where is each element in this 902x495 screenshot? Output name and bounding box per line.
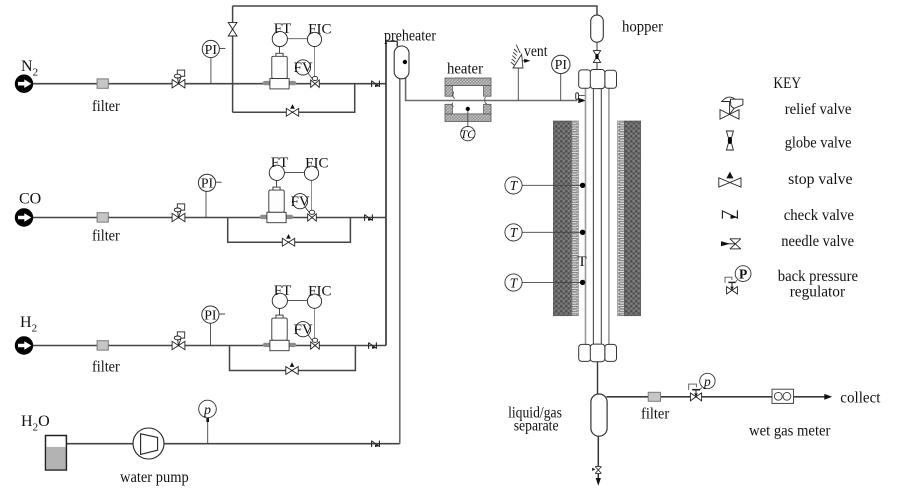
wire separator drain (597, 436, 599, 466)
key stop valve symbol (719, 172, 741, 188)
CO gas source (15, 209, 32, 226)
CO mass flow controller assembly FT/FIC/FV (262, 155, 329, 223)
svg-text:filter: filter (92, 359, 121, 376)
hopper vessel (591, 15, 604, 42)
temperature indicator T2 (505, 224, 522, 241)
wire reactor PI stem (560, 73, 562, 100)
H2 gas source (15, 337, 32, 354)
wire water line y=443.7 (66, 443, 399, 445)
reactor pressure indicator PI (552, 55, 570, 73)
wire H2 main line y=345.5 (33, 345, 386, 347)
wire H2 PI stem (210, 323, 212, 345)
furnace right coil strip (618, 121, 625, 316)
H2 bypass stop valve (286, 362, 298, 374)
wire nozzle link (579, 94, 586, 96)
heater bottom wall (445, 114, 491, 122)
water tank (46, 436, 67, 471)
key globe valve symbol (726, 131, 733, 150)
wire CO PI stem (205, 191, 207, 217)
svg-text:preheater: preheater (384, 28, 437, 45)
wire CO bypass loop (228, 218, 351, 243)
heater left wall segments (445, 86, 452, 97)
drain needle valve (595, 467, 601, 474)
wire top rail to hopper (233, 6, 597, 15)
N2 pressure regulator valve (172, 70, 185, 88)
svg-text:wet gas meter: wet gas meter (749, 423, 831, 440)
svg-text:back pressure: back pressure (778, 268, 858, 285)
thermocouple junction dot T3 (580, 280, 585, 285)
key globe valve plug dot (728, 137, 732, 144)
svg-text:hopper: hopper (622, 19, 664, 36)
wire vent stem (517, 68, 519, 101)
N2 check valve (372, 81, 380, 87)
reactor inner tube right wall (600, 89, 602, 345)
svg-text:filter: filter (641, 406, 670, 423)
CO pressure indicator PI (198, 174, 221, 191)
water line check valve (372, 441, 380, 447)
wire preheater water feed tube (down to water line) (399, 77, 401, 444)
drain outlet arrowhead (596, 478, 601, 486)
svg-text:H2: H2 (20, 314, 37, 335)
temperature indicator T1 (505, 177, 522, 194)
H2 mass flow controller assembly FT/FIC/FV (265, 283, 332, 351)
furnace left coil strip (572, 121, 579, 316)
water p gauge stem tick (206, 415, 209, 422)
svg-text:collect: collect (840, 390, 881, 407)
reactor inner tube left wall (592, 89, 594, 345)
svg-text:P: P (739, 267, 747, 282)
temperature controller TC (461, 126, 475, 140)
water pump (133, 428, 164, 459)
CO bypass stop valve (282, 234, 294, 246)
wire N2 main line y=83.7 (33, 83, 386, 85)
hopper globe valve plug dot (595, 54, 598, 59)
wire T3 branch (522, 281, 583, 283)
reactor inlet nozzle pill (576, 93, 579, 100)
svg-text:needle valve: needle valve (781, 233, 854, 250)
H2 pressure indicator PI (202, 306, 225, 323)
svg-text:CO: CO (19, 191, 41, 208)
thermocouple junction dot T1 (580, 183, 585, 188)
H2 pressure regulator valve (172, 332, 185, 350)
reactor top flange nuts (579, 70, 617, 89)
wire reactor bottom to separator (597, 362, 599, 395)
key check valve symbol (722, 210, 737, 219)
CO check valve (365, 214, 373, 220)
wire gas manifold vertical (385, 41, 387, 345)
svg-text:H2O: H2O (21, 413, 50, 434)
wire heater TC stem (467, 111, 469, 127)
svg-text:relief valve: relief valve (785, 101, 852, 118)
bpr bowtie (690, 393, 696, 401)
heater pipe entry hooks (453, 92, 455, 99)
N2 filter (97, 79, 108, 88)
reactor tube outer left wall (585, 89, 587, 345)
back pressure regulator (collect line) (689, 373, 715, 401)
reactor tube outer right wall (608, 89, 610, 345)
heater thermocouple dot (466, 107, 470, 111)
reactor bottom flange nuts (579, 344, 617, 362)
N2 mass flow controller assembly FT/FIC/FV (265, 21, 332, 89)
wire N2 PI stem (210, 58, 212, 84)
svg-text:p: p (203, 403, 211, 418)
H2 filter (97, 341, 108, 350)
wire CO main line y=217.5 (33, 217, 386, 219)
wire globe valve to reactor flange (596, 62, 598, 70)
furnace right jacket block (624, 121, 640, 316)
reactor inlet arrow (578, 98, 586, 103)
wire T1 branch (522, 184, 583, 186)
bpr T-handle (692, 389, 700, 391)
key bpr P circle (735, 266, 751, 282)
preheater thermocouple dot (403, 60, 407, 64)
outlet filter (648, 392, 660, 401)
wire separator outlet to collect (607, 396, 826, 398)
svg-text:vent: vent (524, 43, 548, 60)
wire hopper to globe valve (596, 42, 598, 51)
vent hatch marks (511, 45, 520, 66)
svg-text:water pump: water pump (120, 469, 189, 486)
H2 check valve (369, 342, 377, 348)
bpr bracket (689, 384, 697, 390)
wet gas meter (772, 389, 794, 403)
svg-text:check valve: check valve (784, 207, 854, 224)
svg-text:filter: filter (92, 228, 121, 245)
water tank liquid fill (46, 447, 65, 469)
svg-text:T: T (578, 254, 587, 270)
key needle valve symbol (730, 239, 741, 249)
temperature indicator T3 (505, 274, 522, 291)
svg-text:TC: TC (460, 127, 476, 141)
vent flame arrestor triangle (513, 54, 523, 68)
svg-text:filter: filter (92, 98, 121, 115)
wire T2 branch (522, 231, 583, 233)
svg-text:PI: PI (555, 58, 568, 73)
wire preheater outlet tube to heater level (406, 77, 578, 101)
svg-text:globe valve: globe valve (785, 135, 852, 152)
hopper globe valve (593, 51, 600, 63)
N2 bypass stop valve (286, 104, 298, 116)
svg-text:heater: heater (447, 61, 484, 78)
svg-text:p: p (703, 374, 711, 389)
svg-text:stop valve: stop valve (788, 171, 852, 188)
N2 gas source (15, 75, 32, 92)
CO filter (97, 213, 108, 222)
collect arrowhead (824, 394, 832, 400)
vent flow arrow (523, 60, 525, 62)
key needle valve arrow (721, 241, 730, 246)
key back pressure regulator symbol (725, 266, 751, 294)
liquid/gas separator vessel (591, 394, 607, 436)
heater right wall segments (484, 86, 491, 97)
wire manifold to preheater top (386, 41, 397, 46)
bpr pressure circle p (700, 373, 715, 388)
preheater vessel (394, 46, 409, 79)
wire water p gauge stem (207, 418, 209, 444)
N2 pressure indicator PI (202, 40, 225, 57)
thermocouple junction dot T2 (580, 230, 585, 235)
furnace left jacket block (553, 121, 571, 316)
wire N2 bypass loop (233, 84, 355, 113)
wire H2 bypass loop (230, 346, 356, 371)
key relief valve symbol (720, 97, 743, 119)
svg-text:KEY: KEY (773, 75, 801, 92)
bpr link to p (700, 388, 702, 390)
svg-text:regulator: regulator (790, 284, 846, 301)
heater top wall (445, 78, 491, 86)
CO pressure regulator valve (172, 204, 185, 222)
globe valve on N2 riser (228, 22, 237, 36)
wire N2 riser to top rail (with bypass left leg) (232, 6, 234, 112)
water pressure gauge p (199, 400, 217, 418)
drain needle valve arrow (592, 468, 595, 471)
svg-text:separate: separate (514, 418, 559, 435)
